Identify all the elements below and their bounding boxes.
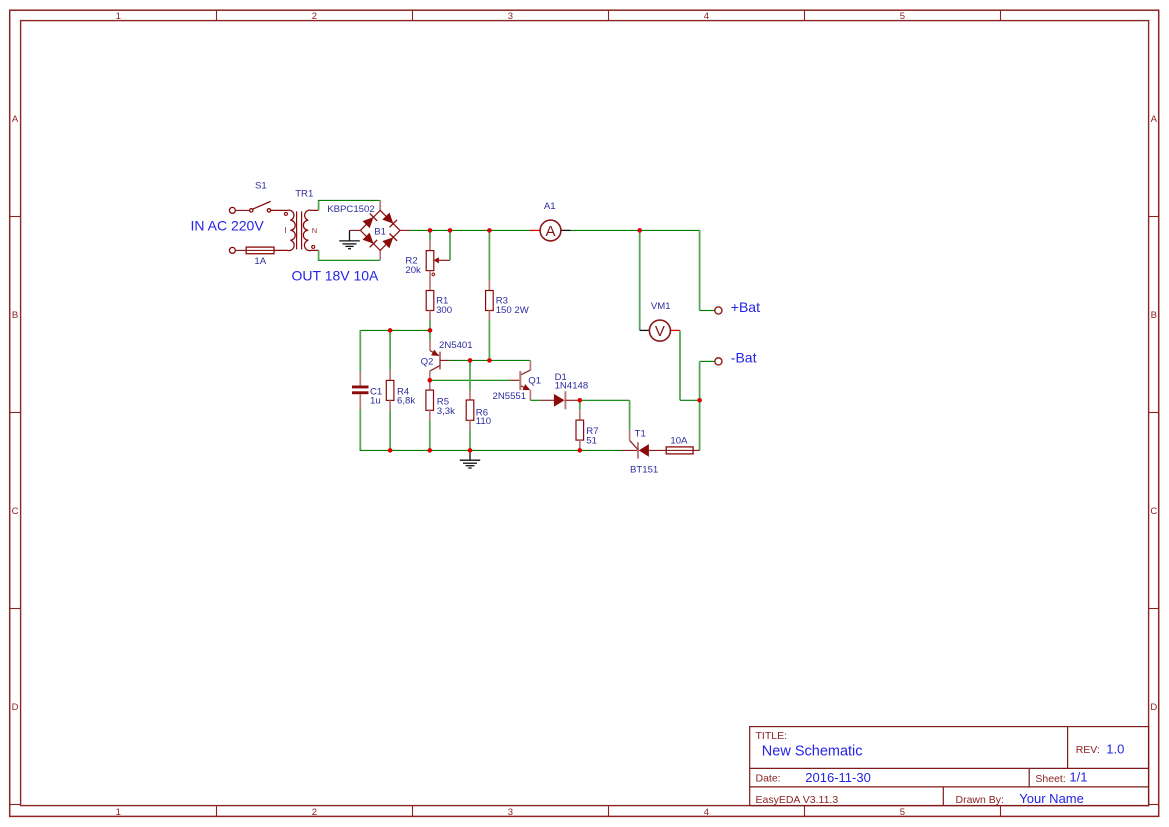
svg-text:Your Name: Your Name [1019,791,1084,806]
svg-text:New Schematic: New Schematic [762,744,863,760]
transformer TR1 core [296,211,298,249]
resistor R5 [429,380,431,390]
svg-text:51: 51 [586,435,597,446]
voltmeter VM1 [640,329,650,331]
svg-text:OUT 18V 10A: OUT 18V 10A [292,267,380,283]
transformer TR1 secondary winding [303,210,318,250]
wire upper rail down left [359,330,361,371]
node junction bus/R2 [428,228,433,233]
wire -Bat down to fuse [700,360,715,362]
wire upper rail [360,329,430,331]
node junction bus/wiper [448,228,453,233]
svg-text:2N5551: 2N5551 [493,391,527,402]
svg-text:1N4148: 1N4148 [555,381,589,392]
svg-text:D: D [12,702,19,713]
svg-text:1: 1 [116,11,121,22]
ammeter A1 [530,229,540,231]
svg-text:4: 4 [704,11,709,22]
wire bus to R3 [488,230,490,280]
svg-text:VM1: VM1 [651,301,671,312]
wire R4 to bottom rail [389,410,391,450]
wire Q1 emitter to D1 [530,399,540,401]
wire bridge+ to A1 [410,229,530,231]
fuse F1 1A [246,247,274,254]
node junction base row/R6 [468,358,473,363]
svg-text:20k: 20k [405,265,421,276]
svg-text:5: 5 [900,11,905,22]
svg-text:2: 2 [312,807,317,818]
svg-text:300: 300 [436,305,452,316]
svg-text:1A: 1A [254,256,266,267]
svg-text:TITLE:: TITLE: [756,730,788,742]
svg-text:A: A [12,114,19,125]
svg-text:REV:: REV: [1076,744,1100,756]
svg-text:2016-11-30: 2016-11-30 [805,770,871,785]
node junction bus/R3 [487,228,492,233]
svg-text:IN AC 220V: IN AC 220V [191,218,265,234]
node junction rail/R7 bottom [578,448,583,453]
node junction D1/R7/gate [578,398,583,403]
ruler row letters left [12,114,19,713]
bridge B1 diode bottom-left [363,233,374,244]
node junction base row/R3 [487,358,492,363]
svg-text:Sheet:: Sheet: [1035,773,1065,785]
transistor Q1 2N5551 [529,360,531,370]
svg-text:D: D [1150,702,1157,713]
bridge B1 diode top-left [363,217,374,228]
wire R3 to Q2 base row [488,321,490,361]
wire VM1 to -Bat rail [679,330,681,400]
bridge rectifier B1 diamond [360,210,400,250]
wire Q2 base row to Q1 collector [450,359,531,361]
svg-text:5: 5 [900,807,905,818]
wire secondary bottom to bridge [318,250,320,260]
ruler column numbers top [116,11,905,22]
svg-text:C: C [1150,506,1157,517]
wire rail to Q2 emitter [429,330,431,340]
wire R1 to upper rail [429,321,431,331]
svg-text:C: C [12,506,19,517]
svg-text:T1: T1 [635,428,646,439]
svg-text:A: A [545,223,555,240]
bridge B1 diode top-right [382,213,393,224]
terminal IN bottom [229,247,235,253]
wire C1 to bottom rail [359,409,361,450]
node junction rail/R6/ground [468,448,473,453]
node junction bus/VM1 [637,228,642,233]
svg-text:N: N [312,226,317,235]
wire R6 to bottom rail [469,430,471,450]
svg-text:1.0: 1.0 [1106,742,1124,757]
svg-text:4: 4 [704,807,709,818]
svg-text:3: 3 [508,11,513,22]
svg-text:Date:: Date: [756,773,781,785]
wire bus to wiper [449,230,451,260]
svg-text:10A: 10A [670,435,688,446]
svg-text:150 2W: 150 2W [496,305,530,316]
wire D1 node to gate corner [580,399,630,401]
ground at bottom rail [460,450,480,468]
svg-text:Q1: Q1 [528,375,541,386]
wire R5 to bottom rail [429,420,431,451]
svg-text:-Bat: -Bat [731,350,757,366]
svg-text:TR1: TR1 [295,188,313,199]
wire bottom rail [360,449,622,451]
node junction rail/R1/Q2 [428,328,433,333]
svg-text:2: 2 [312,11,317,22]
transformer TR1 phase dots [284,212,287,215]
node junction Q2 collector/Q1 base/R5 [428,378,433,383]
wire Q2 collector to Q1 base [430,379,510,381]
node junction rail/R4 bottom [388,448,393,453]
svg-text:KBPC1502: KBPC1502 [327,204,374,215]
resistor R3 [488,281,490,291]
svg-text:2N5401: 2N5401 [439,340,473,351]
transformer TR1 primary winding [271,210,295,250]
node junction rail/R5 bottom [428,448,433,453]
svg-text:3,3k: 3,3k [437,406,455,417]
svg-text:B1: B1 [374,227,386,238]
wire bus to R2 [429,230,431,240]
ruler column numbers bottom [116,807,905,818]
svg-text:1u: 1u [370,396,381,407]
svg-text:1: 1 [116,807,121,818]
svg-text:V: V [655,323,665,340]
svg-text:B: B [1151,310,1157,321]
svg-text:+Bat: +Bat [731,299,760,315]
svg-text:3: 3 [508,807,513,818]
R2 wiper arrow [439,259,450,261]
terminal -Bat [715,358,722,365]
transistor Q2 2N5401 [429,340,431,351]
bridge B1 diode bottom-right [382,237,393,248]
capacitor C1 [359,371,361,385]
svg-text:A1: A1 [544,201,556,212]
svg-text:A: A [1151,114,1158,125]
svg-text:B: B [12,310,18,321]
svg-text:S1: S1 [255,181,267,192]
switch S1 [250,201,271,212]
wire R4 top [389,330,391,370]
wire bus to VM1 [639,230,641,330]
wire A1 to +Bat corner [571,229,700,231]
potentiometer R2 [429,240,431,250]
svg-text:110: 110 [476,416,491,427]
resistor R7 [579,410,581,420]
title block border [750,727,1149,806]
ground at bridge minus [339,230,360,248]
svg-text:Q2: Q2 [421,357,434,368]
terminal +Bat [715,307,722,314]
wire D1 node to R7 [579,400,581,410]
svg-text:I: I [284,225,286,235]
diode D1 1N4148 [540,399,554,401]
thyristor T1 BT151 [621,449,638,451]
resistor R1 [426,291,434,311]
svg-text:EasyEDA V3.11.3: EasyEDA V3.11.3 [756,794,839,806]
resistor R4 [389,370,391,380]
wire secondary top to bridge [318,200,320,210]
ruler row letters right [1150,114,1157,713]
node junction rail/R4 [388,328,393,333]
svg-text:1/1: 1/1 [1069,770,1087,785]
terminal IN top [229,207,235,213]
svg-text:BT151: BT151 [630,465,658,476]
wire base row to R6 [469,360,471,390]
resistor R6 [469,390,471,400]
svg-text:Drawn By:: Drawn By: [956,794,1004,806]
fuse F2 10A [666,447,693,454]
bridge rectifier B1 pins [379,200,381,210]
svg-text:6,8k: 6,8k [397,396,415,407]
node junction VM1/-Bat [697,398,702,403]
